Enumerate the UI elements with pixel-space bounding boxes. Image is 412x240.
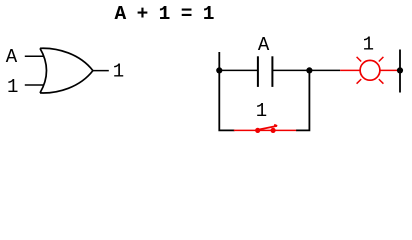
- lamp ray SW: [357, 79, 362, 84]
- svg-text:A + 1 = 1: A + 1 = 1: [115, 3, 215, 25]
- wire input A: [25, 55, 44, 57]
- node junction dot left: [216, 67, 222, 73]
- node junction dot middle: [306, 67, 312, 73]
- wire lamp lead right (red): [380, 69, 400, 71]
- switch 1 pole dot right: [271, 128, 276, 133]
- switch 1 blade: [258, 126, 277, 130]
- node junction dot right: [397, 67, 403, 73]
- svg-text:1: 1: [113, 60, 124, 82]
- svg-text:1: 1: [363, 33, 374, 55]
- or-gate U1: [40, 48, 93, 93]
- lamp ray SE: [379, 79, 384, 84]
- wire output: [93, 70, 109, 72]
- wire rung middle: [272, 69, 340, 71]
- lamp 1 circle: [360, 60, 380, 80]
- svg-text:1: 1: [256, 100, 267, 122]
- contact A bar2: [271, 56, 273, 87]
- wire branch vertical: [296, 70, 309, 130]
- wire input 1: [25, 84, 44, 86]
- svg-text:A: A: [6, 46, 18, 68]
- switch 1 pole dot left: [255, 128, 260, 133]
- lamp ray NW: [357, 57, 362, 62]
- svg-text:A: A: [258, 34, 270, 56]
- lamp ray NE: [379, 57, 384, 62]
- switch 1 handle tip: [274, 125, 277, 126]
- left rail: [219, 52, 234, 130]
- svg-text:1: 1: [7, 76, 18, 98]
- contact A bar1: [257, 56, 259, 87]
- wire lamp lead left (red): [340, 69, 360, 71]
- right rail: [399, 50, 401, 93]
- wire rung left: [219, 69, 258, 71]
- wire bottom branch (red): [234, 129, 296, 131]
